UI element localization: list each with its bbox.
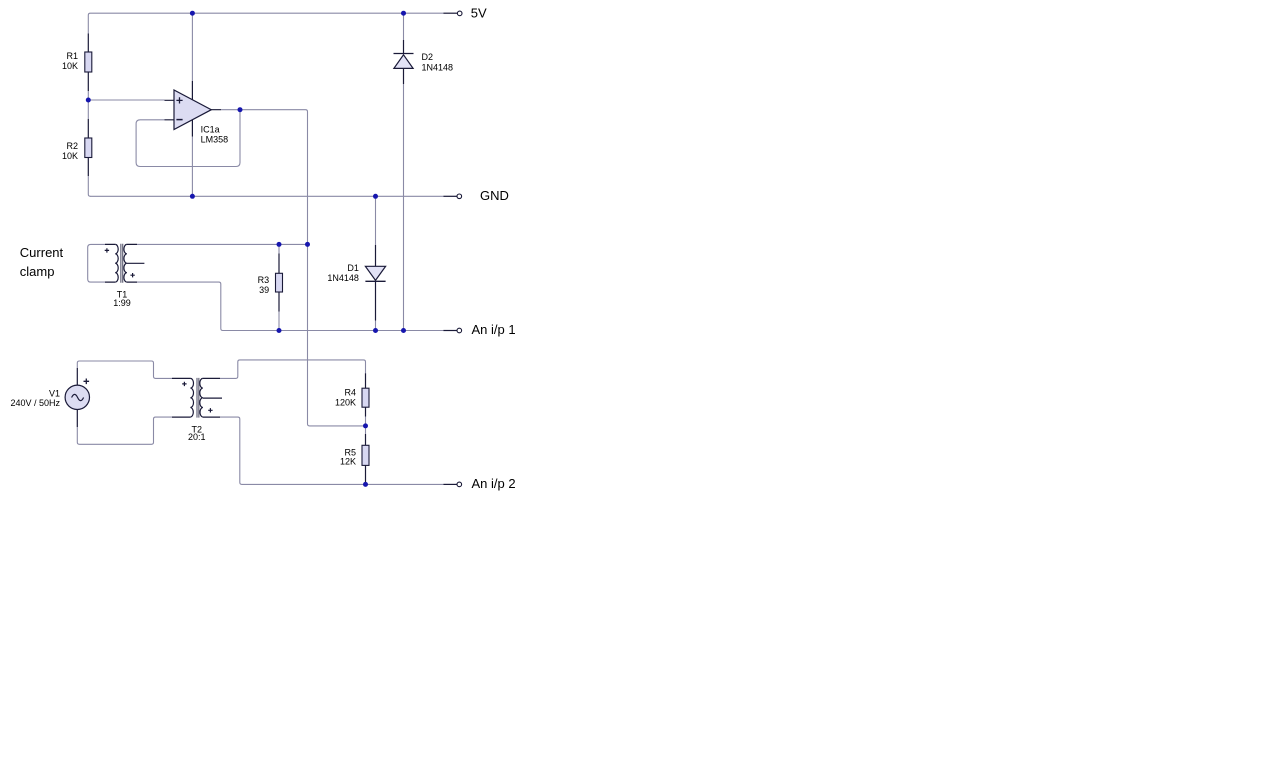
wire V1 bottom to T2 primary bottom	[77, 417, 172, 444]
svg-text:Current: Current	[20, 245, 64, 260]
resistor R5	[340, 434, 369, 483]
terminal GND	[443, 188, 508, 203]
svg-text:D2: D2	[422, 52, 434, 62]
svg-text:clamp: clamp	[20, 264, 55, 279]
wire current clamp loop	[88, 244, 105, 282]
wire T2 secondary top to R4	[220, 360, 366, 379]
svg-text:10K: 10K	[62, 61, 78, 71]
svg-text:39: 39	[259, 285, 269, 295]
svg-text:GND: GND	[480, 188, 509, 203]
diode D2	[394, 40, 454, 84]
svg-text:5V: 5V	[471, 5, 487, 20]
svg-text:10K: 10K	[62, 151, 78, 161]
svg-text:R1: R1	[66, 51, 78, 61]
svg-text:1N4148: 1N4148	[327, 273, 359, 283]
source V1	[10, 368, 89, 427]
svg-text:R2: R2	[66, 141, 78, 151]
svg-text:1:99: 1:99	[113, 298, 131, 308]
resistor R2	[62, 119, 92, 176]
wire D2 cathode to 5V rail	[403, 13, 405, 40]
wire 5V rail	[88, 13, 443, 33]
svg-text:An i/p 2: An i/p 2	[472, 476, 516, 491]
wire R1 to node A to R2	[87, 91, 89, 119]
svg-text:LM358: LM358	[201, 135, 229, 145]
svg-text:R3: R3	[258, 275, 270, 285]
diode D1	[327, 245, 385, 321]
svg-text:120K: 120K	[335, 398, 356, 408]
svg-text:1N4148: 1N4148	[422, 62, 454, 72]
svg-text:An i/p 1: An i/p 1	[472, 322, 516, 337]
wire junction to R5 top	[365, 426, 367, 434]
wire T2 secondary bottom to An i/p 2 rail	[220, 417, 443, 484]
node 5V op-amp junction	[190, 11, 195, 16]
node 5V D2 junction	[401, 11, 406, 16]
wire op-amp V- to GND rail	[191, 137, 193, 197]
node op-amp output	[238, 107, 243, 112]
transformer T2	[172, 378, 222, 442]
node R4-R5 junction	[363, 423, 368, 428]
svg-text:240V / 50Hz: 240V / 50Hz	[10, 398, 60, 408]
node R3 top	[277, 242, 282, 247]
svg-text:D1: D1	[347, 263, 359, 273]
node D2 An i/p 1	[401, 328, 406, 333]
resistor R1	[62, 34, 92, 92]
terminal An i/p 2	[443, 476, 515, 491]
terminal 5V	[443, 5, 487, 20]
svg-text:IC1a: IC1a	[201, 125, 220, 135]
node bias drop	[305, 242, 310, 247]
wire D2 anode to An i/p 1	[403, 84, 405, 331]
wire D1 cathode to An i/p 1	[375, 321, 377, 331]
node R3 bottom	[277, 328, 282, 333]
wire feedback loop output to inverting input	[136, 110, 240, 167]
wire op-amp V+ to 5V rail	[191, 13, 193, 81]
svg-text:R4: R4	[344, 388, 356, 398]
wire D1 anode to GND rail	[375, 196, 377, 245]
resistor R4	[335, 373, 369, 416]
wire R2 to GND rail	[88, 176, 90, 196]
node A R1-R2 divider	[86, 98, 91, 103]
op-amp IC1a	[165, 81, 229, 145]
wire node A to op-amp + input	[88, 99, 164, 101]
wire T1 secondary bottom to An i/p 1 rail	[137, 282, 443, 330]
wire R4 bottom to junction	[365, 417, 367, 426]
node D1 An i/p 1	[373, 328, 378, 333]
node GND op-amp junction	[190, 194, 195, 199]
label Current clamp	[20, 245, 64, 279]
transformer T1	[105, 244, 145, 308]
svg-text:12K: 12K	[340, 457, 356, 467]
node R5 An i/p 2	[363, 482, 368, 487]
wire GND rail	[90, 195, 443, 197]
wire V1 top to T2 primary top	[77, 361, 172, 378]
terminal An i/p 1	[443, 322, 515, 337]
wire op-amp output to R4-R5 junction	[221, 110, 366, 426]
wire R3 top stub	[278, 244, 280, 253]
svg-text:V1: V1	[49, 389, 60, 399]
svg-text:20:1: 20:1	[188, 432, 206, 442]
resistor R3	[258, 254, 283, 312]
node GND D1 junction	[373, 194, 378, 199]
wire T1 secondary top to R3 and bias node	[137, 243, 308, 245]
wire R3 bottom stub	[278, 312, 280, 331]
